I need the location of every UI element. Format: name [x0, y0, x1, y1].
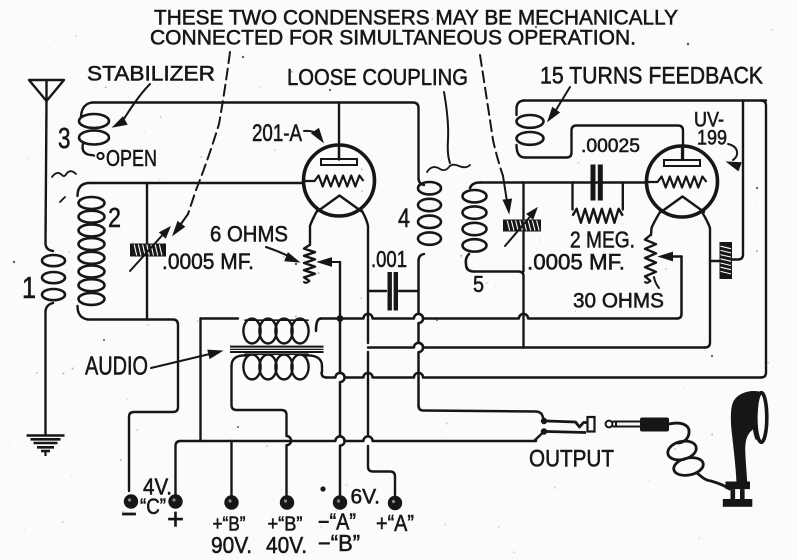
rail R3 filament [368, 343, 705, 348]
wire grid 201A [88, 182, 304, 184]
wire tickler to plate [525, 126, 683, 160]
svg-text:15 TURNS FEEDBACK: 15 TURNS FEEDBACK [540, 63, 764, 90]
svg-text:.0005 MF.: .0005 MF. [527, 250, 625, 275]
svg-text:“C”: “C” [140, 494, 166, 519]
svg-text:.0005 MF.: .0005 MF. [162, 249, 254, 274]
UV-199 pointer arrow [728, 144, 737, 160]
audio secondary right arc [308, 319, 321, 331]
speaker cord [669, 423, 689, 443]
coil L3 [81, 103, 92, 117]
6 OHMS pointer arrow [266, 247, 294, 259]
rail R1 A-minus [316, 319, 321, 331]
svg-text:OUTPUT: OUTPUT [529, 446, 614, 473]
coil L4 [418, 182, 441, 194]
feedback coil L6 [517, 101, 525, 116]
paper speckles [259, 86, 261, 88]
wire 201A left filament [310, 211, 317, 245]
coil L1 [46, 243, 54, 251]
ground [27, 434, 65, 437]
wire V1 arm bus [340, 319, 345, 497]
capacitor C5 .00025 [591, 165, 596, 201]
svg-text:.001: .001 [371, 246, 407, 272]
wire W_g2 grid UV [480, 181, 647, 183]
svg-text:30 OHMS: 30 OHMS [573, 289, 664, 313]
tube V1 201-A [304, 145, 375, 216]
dashed pointer right [480, 55, 503, 176]
wire coil5 bottom [474, 272, 524, 277]
phone plug [606, 421, 613, 428]
wire B40 riser stub [286, 492, 288, 496]
svg-text:201-A: 201-A [252, 120, 302, 147]
wire W_b top right [524, 99, 766, 101]
dashed pointer left [188, 52, 230, 214]
svg-text:OPEN: OPEN [106, 145, 157, 171]
audio pointer arrow [151, 353, 214, 368]
squiggle over coils 4-5 [427, 165, 470, 172]
svg-text:6 OHMS: 6 OHMS [210, 222, 288, 247]
variable capacitor C1 .0005 [130, 244, 166, 257]
audio primary right lead [321, 366, 323, 373]
horn speaker [732, 392, 758, 481]
terminal B+40 [280, 495, 294, 509]
wire UV left filament [651, 212, 660, 235]
svg-text:LOOSE COUPLING: LOOSE COUPLING [287, 64, 468, 90]
svg-text:STABILIZER: STABILIZER [87, 62, 215, 86]
rheostat R1 6 ohms [304, 245, 315, 281]
audio transformer core [230, 346, 324, 348]
loose coupling pointer [444, 92, 450, 163]
svg-text:−“B”: −“B” [318, 530, 360, 556]
wire W_a top [92, 103, 419, 179]
audio transformer winding tops [245, 319, 308, 321]
terminal C+ [168, 494, 182, 508]
audio secondary right end [316, 319, 321, 332]
bypass capacitor C4 [720, 242, 733, 279]
variable capacitor C2 .0005 [503, 220, 541, 232]
svg-text:.00025: .00025 [581, 135, 640, 157]
svg-text:40V.: 40V. [266, 532, 307, 558]
rail W2 [176, 441, 181, 496]
antenna lead wire [46, 101, 47, 243]
ground lead wire [44, 312, 46, 434]
coil L5 [463, 190, 487, 202]
svg-text:CONNECTED FOR SIMULTANEOUS OPE: CONNECTED FOR SIMULTANEOUS OPERATION. [150, 26, 636, 50]
tube V2 UV-199 [647, 146, 718, 217]
svg-text:3: 3 [58, 123, 71, 155]
svg-text:4: 4 [398, 203, 410, 233]
svg-text:+“A”: +“A” [376, 510, 414, 536]
rail R1 main [321, 314, 677, 319]
terminal B+90 [224, 495, 238, 509]
wire 201A right filament V2 [362, 211, 368, 343]
201-A pointer arrow [304, 131, 320, 137]
wire B90 riser [230, 441, 232, 496]
audio secondary to rail arc [307, 319, 321, 329]
stabilizer pointer arrow [122, 84, 150, 122]
svg-text:90V.: 90V. [211, 532, 252, 558]
svg-text:2 MEG.: 2 MEG. [570, 227, 635, 253]
wire cap C1 vertical [146, 183, 148, 320]
rheostat R3 arm [663, 255, 682, 257]
audio transformer secondary [201, 317, 239, 319]
30 OHMS pointer [654, 277, 659, 288]
terminal A-B- [333, 495, 347, 509]
tick mark [60, 197, 65, 202]
ink dot [320, 486, 325, 491]
wire bypass cap branch [732, 101, 743, 260]
rheostat R3 30 ohms [645, 235, 656, 281]
wire V4 cap C2 [522, 183, 524, 348]
svg-text:1: 1 [22, 270, 36, 305]
svg-text:5: 5 [473, 271, 484, 297]
audio primary left lead [232, 366, 287, 436]
resistor R2 2MEG [571, 183, 573, 210]
terminal C- [124, 494, 138, 508]
squiggle over coil2 [52, 171, 76, 177]
svg-text:199: 199 [697, 127, 727, 150]
coil L2 [78, 183, 89, 196]
antenna [29, 80, 64, 101]
svg-text:−: − [121, 498, 137, 531]
wire audio sec left [199, 319, 201, 442]
terminal A+ [388, 496, 402, 510]
capacitor C3 .001 [388, 272, 392, 311]
output jack [541, 418, 547, 424]
tube 201-A plate lead [338, 103, 340, 160]
wire V3 coil4 to jack [419, 261, 424, 406]
rail R4 B-plus [322, 373, 327, 378]
audio transformer primary [243, 355, 260, 380]
capacitor C3 .001 leads [368, 290, 419, 292]
rheostat R1 arm [322, 261, 340, 263]
svg-text:AUDIO: AUDIO [85, 353, 148, 381]
svg-text:6V.: 6V. [351, 486, 381, 509]
svg-text:2: 2 [108, 202, 121, 233]
svg-text:+: + [167, 503, 184, 536]
wire UV right filament [702, 212, 710, 348]
feedback pointer arrow [553, 87, 570, 115]
wire coil2 bottom [88, 320, 178, 492]
